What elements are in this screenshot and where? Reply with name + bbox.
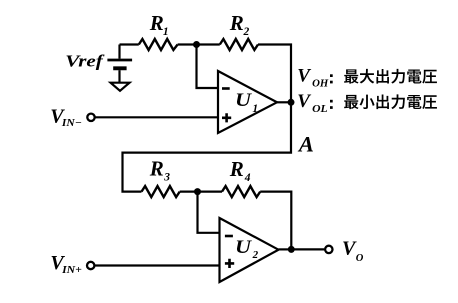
wire node to output terminal	[291, 248, 324, 250]
ground	[111, 83, 130, 91]
svg-text:1: 1	[163, 26, 169, 38]
colon line 1	[330, 74, 333, 83]
op-amp U2	[220, 218, 279, 282]
junction dot U1 output	[288, 99, 295, 106]
svg-text:R: R	[229, 157, 244, 181]
svg-text:4: 4	[244, 172, 251, 184]
input terminal V_IN+	[87, 262, 94, 269]
junction dot U2 output	[288, 246, 295, 253]
R4 label	[229, 157, 251, 184]
svg-text:3: 3	[163, 172, 170, 184]
wire U2 output to node	[279, 248, 292, 250]
voltage source Vref (battery)	[107, 45, 132, 83]
svg-text:OH: OH	[312, 79, 329, 90]
svg-text:R: R	[149, 157, 164, 181]
svg-text:IN+: IN+	[61, 265, 82, 276]
colon line 2	[330, 100, 333, 109]
V_IN+ label	[50, 252, 82, 276]
op-amp U1	[218, 71, 277, 133]
svg-text:IN−: IN−	[61, 118, 82, 129]
svg-text:U: U	[235, 237, 252, 258]
wire R4 to U2 output node	[260, 192, 291, 250]
R2 label	[229, 11, 250, 38]
resistor R4	[222, 186, 260, 197]
output terminal V_O	[325, 246, 332, 253]
annotation line 1: 最大出力電圧	[344, 69, 437, 84]
wire R3 to R4	[180, 191, 222, 193]
svg-text:V: V	[297, 91, 311, 112]
svg-text:R: R	[149, 11, 164, 35]
svg-text:U: U	[235, 90, 252, 111]
svg-text:OL: OL	[312, 104, 328, 115]
U2 minus pin mark	[225, 235, 233, 238]
R1 label	[149, 11, 169, 38]
wire R1 to R2	[178, 43, 220, 45]
resistor R1	[139, 39, 178, 50]
resistor R3	[142, 186, 180, 197]
V_OL label	[297, 91, 327, 115]
resistor R2	[220, 39, 258, 50]
U1 label	[235, 90, 258, 115]
svg-text:Vref: Vref	[65, 51, 104, 70]
wire U1 output to node	[277, 101, 291, 103]
svg-text:2: 2	[243, 26, 250, 38]
svg-text:V: V	[297, 66, 311, 87]
junction dot node R3/R4	[194, 188, 201, 195]
U2 plus pin mark	[225, 259, 234, 268]
input terminal V_IN-	[87, 114, 94, 121]
U1 plus pin mark	[222, 113, 231, 122]
svg-text:R: R	[229, 11, 244, 35]
svg-text:O: O	[356, 253, 364, 264]
V_IN- label	[50, 105, 81, 129]
junction dot node R1/R2	[193, 41, 200, 48]
svg-text:1: 1	[252, 103, 258, 115]
V_O label	[342, 238, 364, 265]
svg-text:A: A	[297, 132, 314, 157]
R3 label	[149, 157, 170, 184]
annotation line 2: 最小出力電圧	[344, 94, 437, 109]
wire Vref to R1	[120, 43, 139, 45]
U1 minus pin mark	[222, 87, 230, 90]
wire junction to U2 inverting input	[198, 192, 220, 233]
U2 label	[235, 237, 259, 261]
wire V_IN- to U1 non-inverting input	[95, 116, 218, 118]
wire V_IN+ to U2 non-inverting input	[95, 264, 220, 266]
wire R2 to feedback corner, down to output node, down to node A wire, left and down to R3 row	[123, 45, 292, 192]
V_OH label	[297, 66, 329, 90]
wire junction to U1 inverting input	[197, 45, 219, 89]
svg-text:2: 2	[252, 249, 259, 261]
